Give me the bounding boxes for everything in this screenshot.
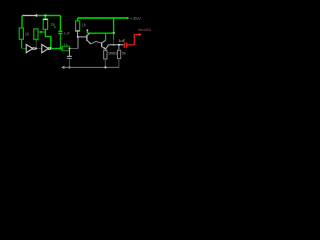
svg-text:8eck8Ω: 8eck8Ω <box>138 28 151 32</box>
svg-text:5k: 5k <box>122 52 126 56</box>
svg-text:1uF: 1uF <box>64 32 71 36</box>
svg-text:100Ω: 100Ω <box>108 52 117 56</box>
svg-text:+35V: +35V <box>130 16 142 22</box>
svg-text:1k: 1k <box>64 42 68 47</box>
